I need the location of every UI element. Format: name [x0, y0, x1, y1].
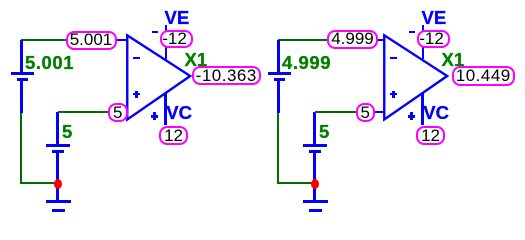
noninverting input plus marker	[133, 93, 140, 95]
battery V3 value label 4.999	[282, 54, 331, 73]
VC pin (left op-amp)	[164, 93, 167, 125]
op-amp X1 triangle (right)	[377, 26, 457, 126]
op-amp designator X1 (right)	[442, 51, 465, 70]
battery V3 positive plate	[268, 72, 291, 75]
VE supply probe bubble -12 right	[417, 30, 450, 49]
op-amp designator X1 (left)	[185, 51, 208, 70]
voltage probe bubble 5.001 (inverting input, left)	[66, 31, 117, 51]
battery V3 top pin	[277, 40, 280, 73]
battery V2 top pin	[56, 112, 59, 144]
VC supply probe bubble 12 right	[416, 126, 446, 145]
ground symbol right: top bar	[303, 200, 329, 203]
battery V2 value label 5	[62, 123, 72, 142]
wire probe bubble to inverting input	[116, 39, 127, 42]
battery V1 negative plate	[17, 78, 28, 81]
battery V4 top pin	[313, 112, 316, 144]
battery V4 negative plate	[309, 150, 321, 153]
wire left vertical (V1 minus down to ground node)	[20, 113, 22, 184]
wire probe bubble 5 to noninverting input right	[375, 111, 385, 114]
output probe bubble 10.449 (right)	[452, 66, 515, 86]
op-amp X1 triangle (left)	[120, 26, 200, 126]
ground symbol right: bottom bar	[309, 209, 322, 212]
battery V1 bottom pin	[20, 81, 23, 114]
battery V4 bottom pin	[313, 153, 316, 201]
wire bottom horizontal (to ground junction)	[20, 182, 57, 184]
VC pin name label right	[423, 104, 449, 123]
inverting input minus marker right	[390, 57, 397, 59]
battery V2 bottom pin	[56, 153, 59, 201]
wire bottom horizontal (to ground junction, right)	[277, 182, 314, 184]
battery V1 positive plate	[11, 72, 34, 75]
battery V1 top pin	[20, 40, 23, 73]
wire top horizontal (battery V3 to probe bubble, right circuit)	[278, 39, 327, 41]
VE pin name label right	[422, 9, 447, 28]
junction node dot right	[311, 179, 319, 189]
VE pin (right op-amp)	[422, 25, 425, 59]
VC supply probe bubble 12	[159, 126, 189, 145]
VE pin (left op-amp)	[165, 25, 168, 59]
battery V2 negative plate	[52, 150, 64, 153]
battery V4 positive plate	[303, 144, 327, 147]
output probe bubble -10.363 (left)	[192, 66, 261, 85]
wire V2 plus to noninverting probe bubble	[58, 111, 109, 113]
VE pin minus polarity mark right	[409, 31, 415, 33]
VC pin name label	[166, 104, 192, 123]
voltage probe bubble 5 (noninverting input, left)	[108, 103, 128, 122]
wire probe bubble to inverting input right	[377, 39, 384, 42]
junction node dot	[54, 179, 62, 189]
VE pin minus polarity mark	[152, 31, 158, 33]
battery V2 positive plate	[46, 144, 70, 147]
battery V4 value label 5	[319, 123, 329, 142]
ground symbol left: top bar	[46, 200, 72, 203]
VE supply probe bubble -12	[160, 30, 193, 49]
VC pin (right op-amp)	[421, 93, 424, 125]
noninverting input plus marker right	[390, 93, 397, 95]
VC pin plus polarity mark	[151, 115, 159, 118]
VC pin plus polarity mark right	[408, 115, 416, 118]
wire right vertical (V3 minus down to ground node)	[277, 113, 279, 184]
battery V3 negative plate	[274, 78, 285, 81]
voltage probe bubble 5 (noninverting input, right)	[356, 103, 376, 122]
VE pin name label	[165, 9, 190, 28]
battery V1 value label 5.001	[25, 54, 74, 73]
ground symbol left: bottom bar	[52, 209, 65, 212]
wire top horizontal (battery V1 to probe bubble, left circuit)	[21, 39, 67, 41]
battery V3 bottom pin	[277, 81, 280, 114]
inverting input minus marker	[133, 57, 140, 59]
wire V4 plus to noninverting probe bubble right	[315, 111, 356, 113]
voltage probe bubble 4.999 (inverting input, right)	[327, 30, 378, 49]
